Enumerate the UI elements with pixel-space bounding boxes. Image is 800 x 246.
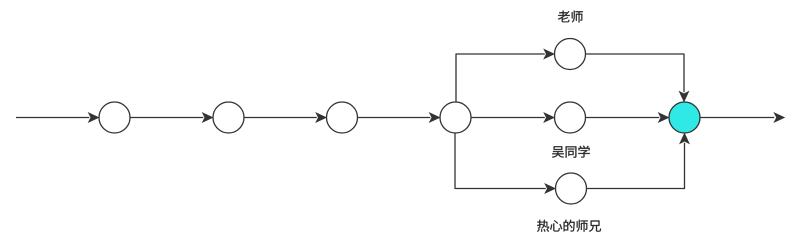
wire start arrow into node N1 <box>16 113 98 122</box>
wire N2 to N3 <box>244 113 326 122</box>
node N3 <box>327 102 358 133</box>
wire N7 to N8 <box>587 134 689 189</box>
label 老师 <box>558 11 583 23</box>
node N8 merge highlighted <box>669 102 700 133</box>
node N2 <box>213 102 244 133</box>
node N4 fork <box>440 102 471 133</box>
node N5 teacher <box>555 39 586 70</box>
node N1 <box>99 102 130 133</box>
label 吴同学 <box>552 146 590 158</box>
wire N4 to N7 helper branch <box>455 133 555 193</box>
wire N3 to N4 <box>358 113 440 122</box>
label 热心的师兄 <box>537 220 601 232</box>
wire N5 to N8 <box>586 54 689 101</box>
wire N8 to end arrow <box>700 113 784 122</box>
wire N1 to N2 <box>130 113 212 122</box>
node N7 helpful senior <box>556 173 587 204</box>
wire N4 to N6 middle branch <box>471 113 554 122</box>
node N6 classmate Wu <box>555 102 586 133</box>
wire N6 to N8 <box>586 113 669 122</box>
wire N4 to N5 teacher branch <box>456 50 554 102</box>
